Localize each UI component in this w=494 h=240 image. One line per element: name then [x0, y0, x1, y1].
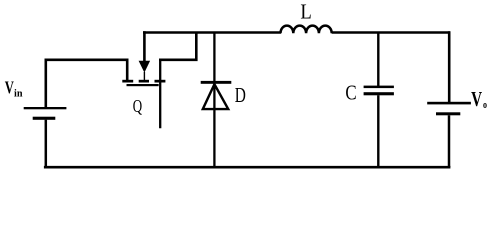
wire source jog to top rail [159, 33, 196, 60]
transistor Q drain contact dash [122, 80, 133, 83]
wire Vo negative to bottom rail [448, 115, 451, 167]
svg-text:V: V [5, 79, 14, 99]
svg-text:V: V [471, 88, 482, 111]
wire capacitor branch bottom [377, 95, 379, 167]
wire gate arrow to gate contact [143, 72, 145, 81]
label Q [133, 97, 142, 116]
wire top rail left segment (switch node to inductor) [143, 31, 281, 34]
wire Vin negative to bottom rail [45, 120, 48, 168]
battery Vo long plate [427, 102, 471, 105]
transistor Q gate contact dash [139, 80, 149, 83]
capacitor C top plate [364, 86, 394, 89]
wire output node down to Vo [448, 31, 451, 102]
wire top rail right segment (inductor to output node) [332, 31, 450, 34]
label C [345, 82, 356, 105]
battery Vo short plate [436, 112, 460, 115]
svg-text:C: C [345, 82, 356, 105]
svg-text:o: o [483, 99, 487, 110]
transistor Q source contact dash [155, 80, 166, 83]
transistor Q channel bar [127, 84, 159, 86]
wire gate drive vertical [143, 31, 146, 61]
svg-text:L: L [300, 1, 311, 24]
label Vin [5, 79, 14, 99]
wire bottom rail [44, 166, 451, 169]
svg-text:in: in [14, 89, 23, 100]
capacitor C bottom plate [364, 92, 394, 95]
label D [235, 84, 246, 108]
svg-text:Q: Q [133, 97, 142, 116]
diode D anode triangle [203, 84, 228, 109]
battery Vin long plate [24, 107, 67, 109]
wire Vin positive to transistor drain [46, 60, 127, 108]
label Vin subscript [14, 89, 23, 100]
transistor Q gate arrow [139, 61, 151, 73]
battery Vin short plate [33, 117, 56, 120]
label L [300, 1, 311, 24]
wire diode branch vertical [213, 33, 215, 168]
label Vo subscript [483, 99, 487, 110]
wire capacitor branch top [377, 33, 379, 87]
label Vo [471, 88, 482, 111]
diode D cathode bar [201, 81, 232, 84]
inductor L [281, 26, 332, 34]
svg-text:D: D [235, 84, 246, 108]
wire source stub down [159, 59, 161, 128]
